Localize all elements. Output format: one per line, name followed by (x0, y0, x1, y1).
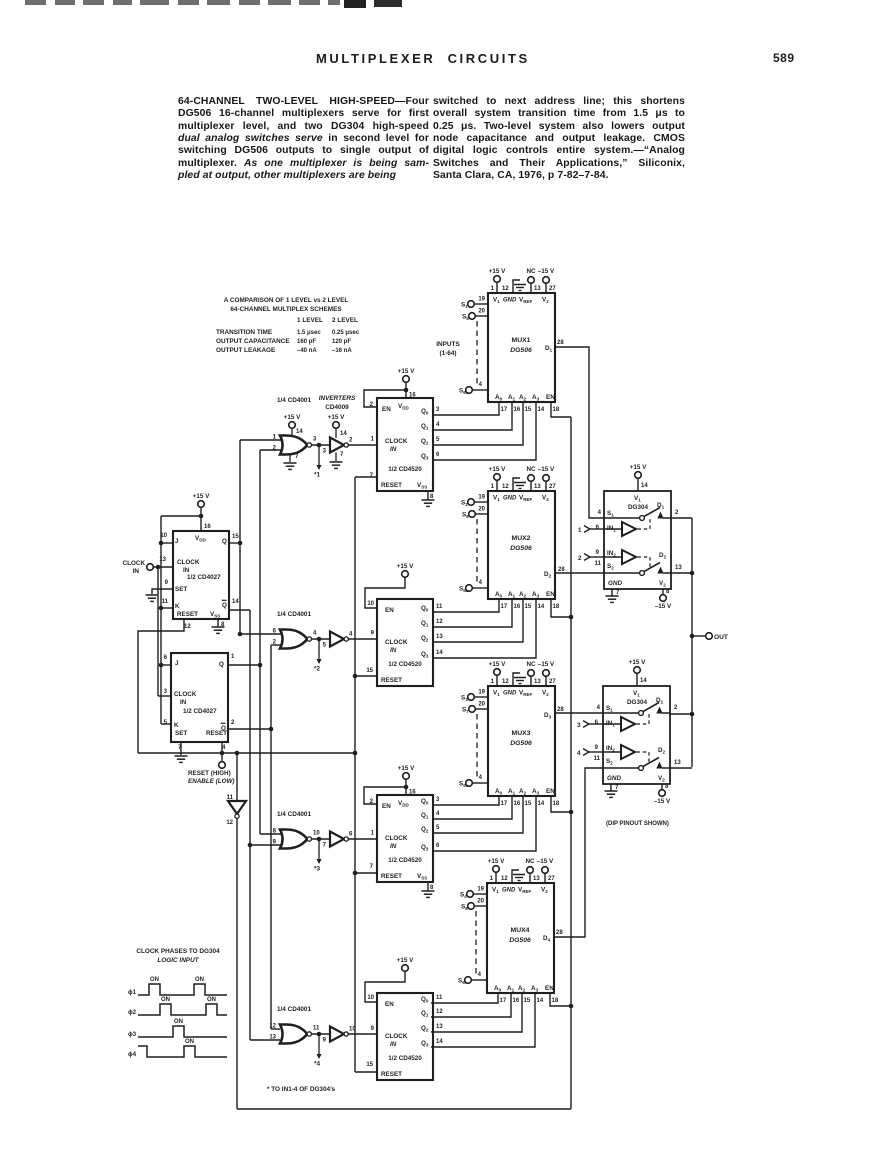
MUX2 dashed elision line between inputs (476, 519, 478, 583)
MUX2 ground symbol pin 12 (513, 478, 520, 491)
svg-text:7: 7 (295, 454, 299, 460)
wire FF1 Q rail to NOR1 and NOR2 (239, 440, 241, 634)
svg-text:11: 11 (313, 1026, 320, 1032)
svg-text:16: 16 (514, 604, 521, 610)
svg-text:6: 6 (595, 720, 599, 726)
svg-text:VSS: VSS (417, 873, 427, 881)
svg-text:*4: *4 (314, 1061, 320, 1068)
svg-text:J: J (175, 538, 179, 545)
svg-text:A3: A3 (532, 788, 540, 796)
svg-text:4: 4 (436, 811, 440, 817)
svg-text:20: 20 (478, 507, 485, 513)
svg-text:DG506: DG506 (510, 740, 532, 747)
svg-text:14: 14 (640, 678, 647, 684)
svg-text:17: 17 (501, 604, 508, 610)
analog switch DG304 #1 (604, 491, 671, 589)
svg-text:11: 11 (162, 599, 169, 605)
svg-text:12: 12 (184, 624, 191, 630)
svg-text:1/4 CD4001: 1/4 CD4001 (277, 397, 312, 404)
svg-text:DG304: DG304 (628, 504, 648, 511)
svg-text:13: 13 (675, 565, 682, 571)
node J1 tie to VDD (199, 514, 204, 519)
svg-text:CD4009: CD4009 (325, 404, 349, 411)
svg-text:4: 4 (479, 580, 483, 586)
wire V1 output to counter clock (348, 444, 377, 446)
svg-text:+15 V: +15 V (328, 414, 345, 421)
svg-text:–15 V: –15 V (538, 268, 555, 275)
svg-text:8: 8 (430, 885, 434, 891)
svg-text:Q3: Q3 (421, 651, 429, 659)
body text left column (178, 96, 429, 182)
svg-text:Q3: Q3 (421, 1040, 429, 1048)
svg-text:+15 V: +15 V (489, 661, 506, 668)
svg-text:2: 2 (674, 705, 678, 711)
svg-text:6: 6 (436, 452, 440, 458)
svg-text:–15 V: –15 V (538, 466, 555, 473)
svg-text:IN: IN (390, 1041, 397, 1048)
svg-text:+15 V: +15 V (398, 765, 415, 772)
svg-text:8: 8 (666, 589, 670, 595)
svg-text:Q1: Q1 (421, 620, 429, 628)
wire MUX3 EN pin 18 (551, 796, 571, 812)
multiplexer MUX3 DG506 (488, 686, 555, 796)
svg-text:CLOCK: CLOCK (174, 691, 197, 698)
wires U1 outputs Q0-Q3 to MUX1 address A0-A3 (433, 402, 499, 415)
svg-text:14: 14 (296, 429, 303, 435)
svg-text:19: 19 (477, 887, 484, 893)
svg-text:VREF: VREF (519, 690, 532, 698)
wire V2 output to counter clock (348, 638, 377, 640)
svg-text:IN: IN (180, 699, 187, 706)
svg-text:ON: ON (195, 977, 204, 983)
svg-text:6: 6 (164, 655, 168, 661)
analog switch DG304 #2 (603, 686, 670, 784)
wire MUX1 EN pin 18 (551, 402, 571, 417)
flip-flop FF1 1/2 CD4027 (173, 531, 229, 619)
svg-text:VREF: VREF (519, 297, 532, 305)
svg-text:MUX2: MUX2 (512, 535, 531, 542)
svg-text:15: 15 (366, 1062, 373, 1068)
svg-text:EN: EN (382, 406, 391, 413)
svg-text:1: 1 (231, 654, 235, 660)
svg-text:2 LEVEL: 2 LEVEL (332, 317, 358, 324)
svg-text:12: 12 (501, 876, 508, 882)
svg-text:1/4 CD4001: 1/4 CD4001 (277, 811, 312, 818)
svg-text:1 LEVEL: 1 LEVEL (297, 317, 323, 324)
svg-text:16: 16 (514, 407, 521, 413)
svg-text:K: K (174, 722, 179, 729)
svg-text:VREF: VREF (519, 495, 532, 503)
inverter U5 enable CD4009 pins 11 12 (236, 753, 238, 800)
svg-text:+15 V: +15 V (489, 268, 506, 275)
svg-text:160 pF: 160 pF (297, 339, 316, 345)
svg-text:A0: A0 (495, 591, 503, 599)
branch arrow *1 to DG304 logic input (318, 445, 320, 466)
FF2 RESET pin 4 terminal (221, 742, 223, 762)
wire clock to FF2 (156, 565, 161, 570)
FF1 SET ground (152, 589, 173, 594)
svg-text:4: 4 (436, 422, 440, 428)
svg-text:V1: V1 (493, 297, 500, 305)
MUX3 ground symbol pin 12 (513, 673, 520, 686)
svg-text:15: 15 (525, 604, 532, 610)
branch arrow *2 to DG304 logic input (318, 639, 320, 660)
svg-text:14: 14 (436, 1039, 443, 1045)
svg-text:ϕ1: ϕ1 (128, 989, 137, 996)
svg-text:D1: D1 (545, 345, 553, 353)
FF1 RESET wire to enable net (138, 619, 184, 753)
svg-text:9: 9 (371, 631, 375, 637)
svg-text:12: 12 (436, 619, 443, 625)
svg-text:A2: A2 (519, 788, 527, 796)
svg-text:16: 16 (204, 524, 211, 530)
svg-text:NC: NC (526, 466, 536, 473)
svg-text:Q1: Q1 (421, 423, 429, 431)
svg-text:14: 14 (641, 483, 648, 489)
svg-text:9: 9 (165, 580, 169, 586)
svg-text:14: 14 (538, 801, 545, 807)
svg-text:EN: EN (545, 985, 554, 992)
svg-text:7: 7 (616, 590, 620, 596)
svg-text:4: 4 (349, 632, 353, 638)
svg-text:ON: ON (161, 997, 170, 1003)
svg-text:12: 12 (502, 679, 509, 685)
svg-text:S2: S2 (606, 758, 613, 766)
branch arrow *3 to DG304 logic input (318, 839, 320, 860)
svg-text:+15 V: +15 V (398, 368, 415, 375)
svg-text:IN: IN (133, 568, 140, 575)
wire EN rail vertical (570, 417, 572, 1109)
svg-text:4: 4 (478, 972, 482, 978)
wire G1 output node (312, 444, 331, 446)
svg-text:4: 4 (479, 775, 483, 781)
svg-text:28: 28 (557, 340, 564, 346)
svg-text:14: 14 (538, 604, 545, 610)
svg-text:13: 13 (534, 484, 541, 490)
svg-text:10: 10 (349, 1027, 356, 1033)
wire counter reset rail (354, 477, 356, 1072)
wire MUX1 D1 output to DG304#1 S1 (555, 347, 604, 518)
wire FF1 Q-bar rail to NOR3 and NOR4 (229, 609, 250, 611)
svg-text:OUT: OUT (714, 634, 728, 641)
svg-text:CLOCK: CLOCK (123, 560, 146, 567)
svg-text:3: 3 (577, 722, 581, 729)
svg-text:8: 8 (430, 494, 434, 500)
svg-text:GND: GND (503, 298, 517, 304)
svg-text:*1: *1 (314, 472, 320, 479)
svg-text:120 pF: 120 pF (332, 339, 351, 345)
svg-text:11: 11 (594, 756, 601, 762)
svg-text:NC: NC (526, 268, 536, 275)
svg-text:OUTPUT LEAKAGE: OUTPUT LEAKAGE (216, 347, 276, 354)
svg-text:4: 4 (479, 382, 483, 388)
MUX4 dashed elision line between inputs (475, 911, 477, 975)
counter U3 1/2 CD4520 (377, 795, 433, 882)
svg-text:D2: D2 (658, 747, 666, 755)
svg-text:A0: A0 (494, 985, 502, 993)
svg-text:2: 2 (578, 555, 582, 562)
svg-text:RESET: RESET (381, 1071, 402, 1078)
wire FF2 Q-bar rail to NOR2 and NOR4 (270, 645, 272, 1029)
svg-text:A3: A3 (532, 394, 540, 402)
svg-text:18: 18 (553, 604, 560, 610)
svg-text:19: 19 (478, 495, 485, 501)
svg-text:VDD: VDD (398, 403, 409, 411)
svg-text:14: 14 (340, 431, 347, 437)
svg-text:Q0: Q0 (421, 408, 429, 416)
svg-text:18: 18 (552, 998, 559, 1004)
svg-text:11: 11 (595, 561, 602, 567)
svg-text:Q: Q (219, 661, 224, 668)
svg-text:19: 19 (478, 297, 485, 303)
svg-text:9: 9 (596, 550, 600, 556)
svg-text:2: 2 (349, 438, 353, 444)
svg-text:MUX1: MUX1 (512, 337, 531, 344)
MUX1 ground symbol pin 12 (513, 280, 520, 293)
svg-text:DG506: DG506 (510, 347, 532, 354)
svg-text:6: 6 (436, 843, 440, 849)
svg-text:–16 nA: –16 nA (332, 348, 352, 354)
svg-text:V2: V2 (658, 775, 665, 783)
svg-text:A0: A0 (495, 788, 503, 796)
svg-text:GND: GND (607, 775, 621, 782)
wire MUX3 D3 output to DG304#2 S1 (554, 712, 603, 714)
svg-text:ϕ3: ϕ3 (128, 1031, 137, 1038)
svg-text:A2: A2 (519, 394, 527, 402)
counter U4 1/2 CD4520 (377, 993, 433, 1080)
svg-text:D2: D2 (659, 552, 667, 560)
svg-text:17: 17 (500, 998, 507, 1004)
svg-text:7: 7 (615, 785, 619, 791)
svg-text:7: 7 (340, 452, 344, 458)
svg-text:S2: S2 (607, 563, 614, 571)
svg-text:A COMPARISON OF 1 LEVEL vs 2 L: A COMPARISON OF 1 LEVEL vs 2 LEVEL (224, 297, 349, 304)
svg-text:27: 27 (549, 484, 556, 490)
svg-text:12: 12 (269, 1024, 276, 1030)
svg-text:Q0: Q0 (421, 798, 429, 806)
svg-text:0.25 μsec: 0.25 μsec (332, 330, 360, 336)
svg-text:SET: SET (175, 730, 187, 737)
svg-text:A1: A1 (508, 788, 516, 796)
svg-text:12: 12 (502, 286, 509, 292)
multiplexer MUX4 DG506 (487, 883, 554, 993)
svg-text:64-CHANNEL MULTIPLEX SCHEMES: 64-CHANNEL MULTIPLEX SCHEMES (230, 306, 342, 313)
svg-text:14: 14 (232, 599, 239, 605)
svg-text:18: 18 (553, 407, 560, 413)
wire enable net horizontal (138, 752, 355, 754)
svg-text:CLOCK: CLOCK (385, 835, 408, 842)
svg-text:+15 V: +15 V (397, 957, 414, 964)
svg-text:Q: Q (222, 538, 227, 545)
svg-text:ENABLE (LOW): ENABLE (LOW) (188, 778, 235, 785)
svg-text:1: 1 (491, 484, 495, 490)
svg-text:–15 V: –15 V (655, 603, 672, 610)
svg-text:15: 15 (232, 534, 239, 540)
svg-text:SET: SET (175, 586, 187, 593)
svg-text:1/2 CD4520: 1/2 CD4520 (388, 857, 422, 864)
svg-text:14: 14 (537, 998, 544, 1004)
inverter V4 CD4009 (330, 1027, 344, 1042)
svg-text:17: 17 (501, 407, 508, 413)
svg-text:5: 5 (436, 825, 440, 831)
svg-text:DG304: DG304 (627, 699, 647, 706)
svg-text:EN: EN (546, 394, 555, 401)
FF2 SET ground pin 7 (180, 742, 182, 755)
wire J1/K1/J2/K2 tie rail (160, 516, 162, 724)
svg-text:15: 15 (524, 998, 531, 1004)
svg-text:GND: GND (502, 888, 516, 894)
svg-text:–15 V: –15 V (537, 858, 554, 865)
svg-text:A1: A1 (508, 591, 516, 599)
body text right column (433, 96, 685, 182)
svg-text:5: 5 (164, 720, 168, 726)
V1 ground pin 7 (335, 453, 337, 462)
wires U3 outputs Q0-Q3 to MUX3 address A0-A3 (433, 796, 499, 805)
svg-text:16: 16 (409, 393, 416, 399)
svg-text:*2: *2 (314, 666, 320, 673)
svg-text:9: 9 (595, 745, 599, 751)
svg-text:28: 28 (556, 930, 563, 936)
wire V3 output to counter clock (348, 838, 377, 840)
svg-text:MUX4: MUX4 (511, 927, 530, 934)
svg-text:10: 10 (313, 831, 320, 837)
svg-text:19: 19 (478, 690, 485, 696)
svg-text:A1: A1 (508, 394, 516, 402)
svg-text:S1: S1 (607, 510, 614, 518)
inverter V3 CD4009 (330, 832, 344, 847)
multiplexer MUX1 DG506 (488, 293, 555, 402)
svg-text:3: 3 (436, 797, 440, 803)
svg-text:V2: V2 (541, 887, 548, 895)
svg-text:16: 16 (409, 790, 416, 796)
svg-text:27: 27 (549, 286, 556, 292)
svg-text:RESET: RESET (206, 730, 227, 737)
svg-text:1/2 CD4027: 1/2 CD4027 (183, 708, 217, 715)
svg-text:INVERTERS: INVERTERS (319, 395, 356, 402)
svg-text:V2: V2 (659, 580, 666, 588)
svg-text:7: 7 (323, 843, 327, 849)
svg-text:CLOCK: CLOCK (177, 559, 200, 566)
svg-text:27: 27 (549, 679, 556, 685)
wire enable-bar to bottom frame (236, 818, 238, 1109)
svg-text:A3: A3 (532, 591, 540, 599)
svg-text:INPUTS: INPUTS (436, 341, 460, 348)
svg-text:Q2: Q2 (421, 826, 429, 834)
wire DG304 outputs to OUT rail (671, 517, 692, 519)
svg-text:1: 1 (491, 679, 495, 685)
wire FF2 Q rail to NOR1 and NOR3 (259, 450, 261, 834)
svg-text:V2: V2 (542, 297, 549, 305)
svg-text:LOGIC INPUT: LOGIC INPUT (157, 957, 199, 964)
svg-text:VDD: VDD (398, 800, 409, 808)
U1 VDD pin 16 and +15V supply (404, 388, 409, 393)
svg-text:Q3: Q3 (421, 453, 429, 461)
svg-text:IN: IN (390, 647, 397, 654)
svg-text:6: 6 (596, 525, 600, 531)
svg-text:3: 3 (164, 689, 168, 695)
svg-text:1: 1 (371, 437, 375, 443)
svg-text:VREF: VREF (518, 887, 531, 895)
MUX1 dashed elision line between inputs (476, 321, 478, 385)
svg-text:GND: GND (503, 691, 517, 697)
svg-text:28: 28 (557, 707, 564, 713)
svg-text:CLOCK PHASES TO DG304: CLOCK PHASES TO DG304 (136, 948, 220, 955)
svg-text:9: 9 (371, 1026, 375, 1032)
svg-text:20: 20 (478, 702, 485, 708)
svg-text:J: J (175, 660, 179, 667)
svg-text:Q1: Q1 (421, 1010, 429, 1018)
svg-text:20: 20 (478, 309, 485, 315)
svg-text:V2: V2 (542, 495, 549, 503)
G1 ground pin 7 (289, 455, 291, 463)
svg-text:7: 7 (370, 864, 374, 870)
page number (773, 51, 795, 65)
running head (316, 51, 530, 66)
svg-text:*3: *3 (314, 866, 320, 873)
svg-text:RESET (HIGH): RESET (HIGH) (188, 770, 231, 777)
svg-text:+15 V: +15 V (488, 858, 505, 865)
svg-text:15: 15 (366, 668, 373, 674)
multiplexer MUX2 DG506 (488, 491, 555, 599)
svg-text:D2: D2 (544, 571, 552, 579)
branch arrow *4 to DG304 logic input (318, 1034, 320, 1055)
svg-text:IN: IN (183, 567, 190, 574)
svg-text:1/2 CD4520: 1/2 CD4520 (388, 466, 422, 473)
OUT terminal (690, 634, 695, 639)
svg-text:RESET: RESET (381, 873, 402, 880)
svg-text:1: 1 (490, 876, 494, 882)
svg-text:EN: EN (546, 788, 555, 795)
svg-text:S1: S1 (606, 705, 613, 713)
svg-text:15: 15 (525, 801, 532, 807)
svg-text:15: 15 (525, 407, 532, 413)
wires U4 outputs Q0-Q3 to MUX4 address A0-A3 (431, 993, 498, 1003)
svg-text:ϕ4: ϕ4 (128, 1051, 137, 1058)
svg-text:Q1: Q1 (421, 812, 429, 820)
svg-text:–15 V: –15 V (538, 661, 555, 668)
svg-text:6: 6 (349, 832, 353, 838)
svg-text:20: 20 (477, 899, 484, 905)
svg-text:13: 13 (534, 286, 541, 292)
svg-text:+15 V: +15 V (489, 466, 506, 473)
wire G4 output node (312, 1033, 331, 1035)
svg-text:1.5 μsec: 1.5 μsec (297, 330, 321, 336)
inverter V1 CD4009 (330, 438, 344, 453)
svg-text:CLOCK: CLOCK (385, 438, 408, 445)
MUX4 ground symbol pin 12 (512, 870, 519, 883)
svg-text:Q0: Q0 (421, 996, 429, 1004)
svg-text:VSS: VSS (417, 482, 427, 490)
svg-text:MUX3: MUX3 (512, 730, 531, 737)
svg-text:13: 13 (436, 634, 443, 640)
svg-text:3: 3 (313, 437, 317, 443)
svg-text:RESET: RESET (381, 677, 402, 684)
svg-text:1/4 CD4001: 1/4 CD4001 (277, 611, 312, 618)
svg-text:D4: D4 (543, 935, 551, 943)
wire G3 output node (312, 838, 331, 840)
svg-text:A2: A2 (518, 985, 526, 993)
svg-text:17: 17 (501, 801, 508, 807)
svg-text:DG506: DG506 (509, 937, 531, 944)
svg-text:Q2: Q2 (421, 635, 429, 643)
svg-text:13: 13 (533, 876, 540, 882)
svg-text:Q3: Q3 (421, 844, 429, 852)
svg-text:OUTPUT CAPACITANCE: OUTPUT CAPACITANCE (216, 338, 290, 345)
svg-text:NC: NC (526, 661, 536, 668)
wire G2 output node (312, 638, 331, 640)
svg-text:CLOCK: CLOCK (385, 1033, 408, 1040)
svg-text:(1-64): (1-64) (439, 350, 456, 357)
